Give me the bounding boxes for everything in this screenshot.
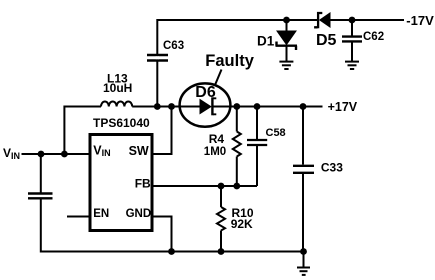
wire R10 top (220, 186, 222, 207)
diode D1 (276, 31, 298, 50)
inductor L13 (101, 102, 132, 107)
wire input cap top (40, 154, 42, 193)
resistor R10 zigzag (217, 207, 225, 231)
svg-text:GND: GND (126, 208, 152, 220)
capacitor C63 plates (147, 55, 168, 61)
svg-text:FB: FB (135, 177, 151, 191)
capacitor C62 plates (342, 37, 362, 42)
wire riser to inductor (64, 107, 101, 155)
wire VIN input (22, 153, 89, 155)
svg-text:+17V: +17V (328, 100, 358, 114)
svg-text:D1: D1 (257, 34, 275, 49)
svg-text:Faulty: Faulty (205, 52, 254, 70)
wire R10 bottom (220, 231, 222, 252)
wire bottom rail (41, 200, 304, 252)
svg-text:10uH: 10uH (103, 81, 132, 95)
wire C58 bottom to FB (256, 146, 258, 186)
wire Faulty pointer (215, 70, 222, 86)
svg-text:C62: C62 (363, 31, 384, 43)
diode D5 (314, 12, 330, 28)
op-amp circle D6 highlight (180, 83, 231, 126)
wire C63 gap mask (156, 56, 159, 59)
svg-text:1M0: 1M0 (204, 146, 226, 158)
wire inductor to D6 (132, 106, 180, 108)
IC box U1 TPS61040 (90, 135, 152, 231)
svg-text:EN: EN (93, 208, 109, 220)
wire C58 top (256, 107, 258, 140)
wire C33 bottom (302, 174, 304, 252)
wire SW pin (154, 107, 172, 155)
wire D1 anode (286, 20, 288, 32)
capacitor input plates (28, 194, 53, 199)
svg-text:C58: C58 (266, 127, 286, 139)
svg-text:C63: C63 (163, 40, 184, 52)
ground below C62 (345, 62, 359, 69)
svg-text:TPS61040: TPS61040 (93, 116, 150, 130)
svg-text:SW: SW (129, 144, 149, 158)
wire R4 top (236, 107, 238, 132)
svg-text:92K: 92K (231, 217, 253, 231)
svg-text:D6: D6 (195, 84, 216, 101)
ground bottom right (297, 268, 310, 275)
svg-text:-17V: -17V (406, 13, 434, 28)
wire EN pin stub (67, 216, 89, 218)
wire FB line (154, 185, 258, 187)
node junction dots (38, 17, 356, 255)
wire R4 bottom (236, 157, 238, 187)
svg-text:D5: D5 (316, 32, 337, 49)
wire D1 cathode to ground (286, 47, 288, 62)
svg-text:R4: R4 (209, 132, 225, 146)
capacitor C33 plates (293, 166, 314, 173)
wire ground stub bottom (303, 252, 305, 267)
wire top rail (157, 20, 317, 107)
wire C62 top (351, 20, 353, 36)
wire D6 to +17V rail (214, 106, 323, 108)
wire through D6 circle (180, 106, 200, 108)
wire C33 top (302, 107, 304, 165)
diode D6 (200, 97, 216, 115)
wire GND pin (154, 217, 172, 252)
svg-text:C33: C33 (321, 160, 343, 174)
capacitor C58 plates (247, 140, 267, 145)
wire top rail right of D5 (329, 19, 404, 21)
resistor R4 zigzag (233, 132, 241, 157)
wire C62 to ground (351, 43, 353, 62)
ground below D1 (279, 62, 293, 69)
